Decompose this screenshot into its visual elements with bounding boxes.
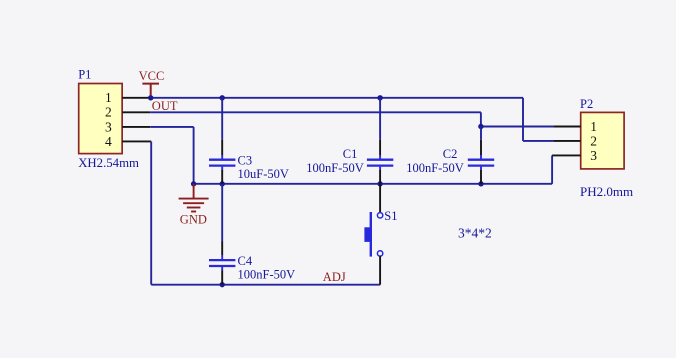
svg-text:2: 2 xyxy=(105,105,112,120)
connector P1 body xyxy=(79,84,122,154)
svg-text:C2: C2 xyxy=(443,147,458,161)
wire VCC net: P1.1 to corner x523 xyxy=(151,97,523,99)
svg-text:GND: GND xyxy=(180,212,207,226)
wire OUT net: vertical drop to junction xyxy=(480,112,482,126)
wire GND net: riser to P2 pin 3 xyxy=(551,155,553,183)
svg-text:10uF-50V: 10uF-50V xyxy=(238,167,289,181)
capacitor C1 xyxy=(367,98,393,184)
switch S1 xyxy=(364,184,382,285)
power port VCC xyxy=(142,84,159,98)
ground symbol GND xyxy=(179,184,209,212)
P1 pin 4 stub xyxy=(122,140,151,142)
svg-text:2: 2 xyxy=(590,133,597,148)
wire VCC net: vertical drop at x523 xyxy=(522,98,524,141)
wire OUT net: P1.2 to corner xyxy=(150,111,481,113)
svg-text:3: 3 xyxy=(590,148,597,163)
svg-text:C4: C4 xyxy=(238,254,253,268)
junction C3 bottom xyxy=(220,181,225,186)
svg-text:100nF-50V: 100nF-50V xyxy=(306,161,364,175)
wire ADJ net: bottom rail xyxy=(151,284,380,286)
capacitor C2 xyxy=(468,127,494,184)
svg-text:100nF-50V: 100nF-50V xyxy=(406,161,464,175)
svg-text:C1: C1 xyxy=(343,147,358,161)
svg-text:4: 4 xyxy=(105,134,112,149)
capacitor C3 xyxy=(209,98,235,184)
svg-text:S1: S1 xyxy=(384,209,397,223)
wire OUT net: junction to P2 pin 1 xyxy=(481,126,553,128)
P2 pin 2 stub xyxy=(553,140,581,142)
P1 pin 3 stub xyxy=(122,126,150,128)
junction C1 bottom / S1 top xyxy=(377,181,382,186)
svg-text:ADJ: ADJ xyxy=(323,270,346,284)
capacitor C4 xyxy=(209,184,235,285)
junction C4 bottom xyxy=(220,282,225,287)
wire VCC net: into P2 pin 2 xyxy=(523,140,553,142)
svg-text:100nF-50V: 100nF-50V xyxy=(238,268,296,282)
junction GND symbol xyxy=(191,181,196,186)
junction C2 bottom xyxy=(478,181,483,186)
svg-text:PH2.0mm: PH2.0mm xyxy=(580,184,633,199)
svg-text:P1: P1 xyxy=(78,67,91,81)
junction OUT / C2 top xyxy=(478,124,483,129)
svg-text:3: 3 xyxy=(105,119,112,134)
svg-text:1: 1 xyxy=(590,119,597,134)
junction VCC at P1.1 xyxy=(148,95,153,100)
svg-text:XH2.54mm: XH2.54mm xyxy=(78,156,139,170)
junction C1 top xyxy=(377,95,382,100)
wire GND rail horizontal xyxy=(194,183,552,185)
svg-text:1: 1 xyxy=(105,90,112,105)
svg-text:P2: P2 xyxy=(580,97,593,111)
P1 pin 2 stub xyxy=(122,111,150,113)
wire ADJ net: vertical from P1.4 xyxy=(150,141,152,284)
svg-text:C3: C3 xyxy=(238,154,253,168)
junction C3 top xyxy=(220,95,225,100)
svg-text:VCC: VCC xyxy=(139,69,165,83)
P2 pin 3 stub xyxy=(552,154,581,156)
wire GND net: vertical drop to ground rail xyxy=(193,127,195,184)
svg-text:OUT: OUT xyxy=(152,99,178,113)
P2 pin 1 stub xyxy=(553,126,581,128)
svg-text:3*4*2: 3*4*2 xyxy=(458,225,492,240)
P1 pin 1 stub xyxy=(122,97,151,99)
wire GND net: P1.3 to corner xyxy=(150,126,193,128)
connector P2 body xyxy=(581,112,624,168)
